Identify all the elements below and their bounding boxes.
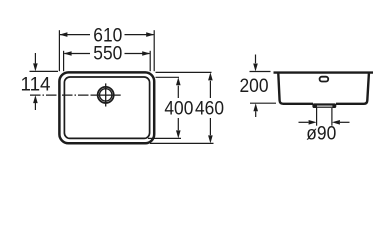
dim 610 extension line right (153, 30, 155, 71)
svg-text:114: 114 (21, 75, 51, 96)
svg-text:200: 200 (240, 76, 269, 97)
side view rim line (274, 71, 374, 73)
dim 400 extension line bottom (148, 137, 181, 139)
dim 460 extension line bottom (150, 142, 214, 144)
dim 114 extension line (rim top, left side) (30, 70, 59, 72)
dim 610 arrow right (146, 32, 154, 37)
dim 460 extension line top (rim top edge, right side) (156, 71, 212, 73)
dim 550 line (64, 53, 149, 55)
side view drain body (312, 103, 336, 108)
dim 400 line upper (177, 86, 179, 98)
side view overflow hole (320, 77, 329, 82)
dim 460 line lower (209, 118, 211, 135)
drain outer circle (98, 87, 114, 103)
dim 400 extension line top (bowl top edge, right side) (156, 76, 180, 78)
dim 550 arrow left (64, 51, 72, 56)
drain inner circle (100, 89, 112, 101)
dim 200 extension line top (250, 71, 271, 73)
dim o90 arrow right (340, 121, 350, 123)
dim 610 extension line left (58, 30, 60, 71)
dim 114 arrow up (34, 103, 36, 110)
sink outer rim (top view) (59, 72, 154, 143)
svg-text:460: 460 (195, 99, 224, 120)
svg-text:550: 550 (93, 44, 122, 65)
dim 200 arrow down (255, 55, 257, 64)
drain centerline (dash-dot) (30, 94, 91, 96)
dim 610 line (60, 34, 154, 36)
sink bowl inner edge (top view) (64, 77, 149, 138)
dim o90 extension line right (331, 108, 333, 126)
dim 550 arrow right (142, 51, 150, 56)
dim 550 extension line right (149, 51, 151, 71)
dim 610 arrow left (59, 32, 67, 37)
side view drain strainer (gray) (317, 105, 332, 107)
dim 114 arrow down (34, 53, 36, 63)
dim o90 extension line left (316, 108, 318, 126)
drain crosshair vertical (105, 83, 107, 106)
side view basin outline (278, 74, 369, 104)
drain crosshair horizontal (91, 94, 121, 96)
dim 200 arrow up (255, 111, 257, 117)
dim 200 extension line bottom (250, 102, 276, 104)
dim o90 arrow left (299, 121, 309, 123)
dim 460 line upper (209, 81, 211, 98)
dim 550 extension line left (63, 51, 65, 71)
dim 400 line lower (177, 118, 179, 130)
svg-text:400: 400 (164, 99, 193, 120)
svg-text:ø90: ø90 (306, 124, 336, 145)
